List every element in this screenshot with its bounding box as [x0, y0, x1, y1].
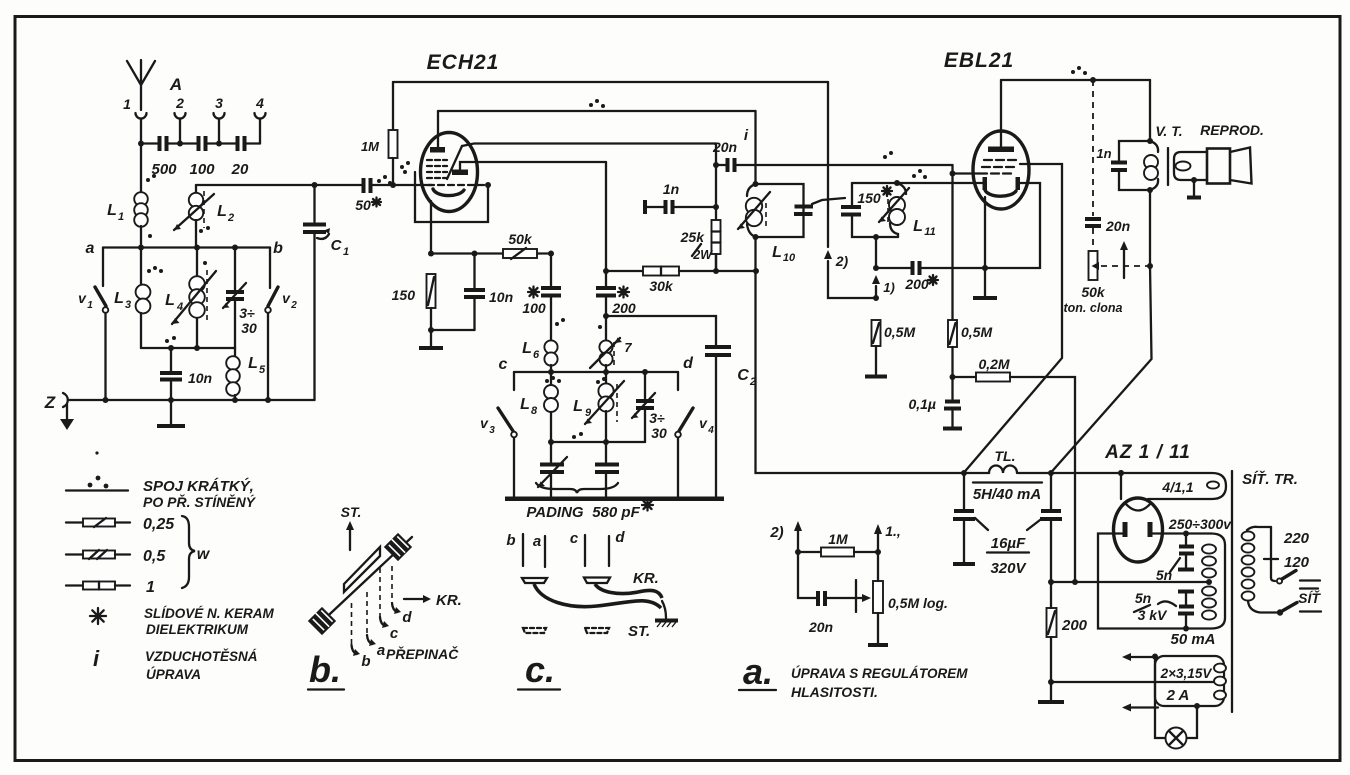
svg-text:3: 3 [215, 95, 223, 111]
svg-text:200: 200 [611, 300, 636, 316]
svg-text:1): 1) [883, 280, 895, 295]
svg-text:a: a [533, 533, 541, 550]
svg-text:20n: 20n [1105, 218, 1130, 234]
capacitor C2 [705, 347, 756, 497]
mains transformer core [1231, 471, 1233, 712]
legend: resistor 1W symbol [66, 579, 155, 596]
tube base box ECH21 [415, 172, 491, 222]
svg-text:5: 5 [259, 364, 266, 376]
svg-text:C: C [331, 237, 343, 254]
switch v2 [265, 248, 297, 401]
anode rail 2 (to L10) [438, 99, 756, 111]
svg-text:50 mA: 50 mA [1170, 631, 1215, 648]
svg-text:2 A: 2 A [1166, 687, 1190, 704]
ground rail (IF unit) [505, 496, 724, 501]
svg-text:ton. clona: ton. clona [1063, 301, 1122, 315]
svg-text:c: c [499, 356, 508, 373]
trimmer 3-30 (IF) [632, 372, 667, 442]
svg-text:3 kV: 3 kV [1138, 607, 1168, 623]
svg-text:5n: 5n [1135, 590, 1151, 606]
svg-text:50k: 50k [508, 231, 533, 247]
svg-text:Z: Z [44, 393, 56, 412]
pilot lamp [1155, 656, 1200, 749]
rotor plate (inset b) [344, 547, 380, 592]
cable to ground (inset c) [534, 584, 661, 608]
triode anode rail (to 200*) [460, 162, 606, 169]
svg-text:5n: 5n [1156, 567, 1172, 583]
B+ rail [756, 271, 1147, 476]
svg-text:150: 150 [857, 190, 881, 206]
resistor 50k [503, 231, 537, 259]
lower junction line [141, 347, 235, 349]
svg-text:L: L [772, 244, 782, 261]
svg-text:250÷300v: 250÷300v [1168, 516, 1232, 532]
tube ECH21 [421, 51, 500, 254]
svg-text:2): 2) [769, 524, 783, 541]
capacitor 16uF (input) [953, 473, 975, 564]
wire d-line to C2 [603, 313, 716, 345]
svg-text:d: d [683, 355, 694, 372]
svg-text:1: 1 [146, 579, 155, 596]
wire grid rail vertical [713, 144, 719, 272]
svg-text:0,5M: 0,5M [961, 324, 992, 340]
svg-text:1M: 1M [361, 139, 380, 154]
heater arrows [1122, 653, 1158, 712]
svg-text:30: 30 [241, 320, 257, 336]
coil L9 [573, 372, 624, 442]
svg-text:L: L [165, 292, 175, 309]
capacitor 10n (cathode) [464, 254, 513, 331]
svg-text:1: 1 [87, 300, 93, 311]
hatched pad lower (inset b) [308, 607, 336, 635]
plug KR left (inset c) [522, 578, 547, 583]
svg-text:TL.: TL. [995, 448, 1016, 464]
padding trimmer capacitor [538, 442, 567, 499]
EBL21 screen return [1020, 183, 1040, 268]
rectifier AZ1/11 [1104, 442, 1191, 562]
wire grid jog into EBL21 [883, 151, 979, 179]
svg-text:c.: c. [525, 649, 555, 690]
svg-text:c: c [570, 530, 579, 547]
wire L10 cap to 150* [812, 198, 845, 204]
svg-text:3: 3 [489, 425, 495, 436]
anode return box AZ1 [1098, 534, 1189, 632]
svg-text:SLÍDOVÉ N. KERAM: SLÍDOVÉ N. KERAM [144, 606, 275, 621]
svg-text:3÷: 3÷ [649, 410, 665, 426]
svg-text:PO PŘ. STÍNĚNÝ: PO PŘ. STÍNĚNÝ [143, 493, 257, 510]
svg-text:10: 10 [783, 252, 796, 264]
top supply rail (ECH21) [393, 81, 828, 83]
svg-text:SÍŤ: SÍŤ [1298, 589, 1321, 606]
svg-text:EBL21: EBL21 [944, 49, 1014, 72]
svg-text:ST.: ST. [341, 504, 362, 520]
switch v1 [78, 248, 108, 401]
svg-text:2: 2 [227, 212, 234, 224]
svg-text:10n: 10n [489, 289, 513, 305]
capacitor 20n (inset a) [818, 591, 825, 606]
svg-text:ÚPRAVA S REGULÁTOREM: ÚPRAVA S REGULÁTOREM [791, 666, 968, 681]
svg-text:A: A [169, 75, 182, 94]
switch shaft (inset b) [316, 537, 412, 627]
capacitor 16uF (output) [1040, 473, 1062, 585]
svg-text:1M: 1M [828, 531, 848, 547]
svg-text:16µF: 16µF [991, 535, 1026, 552]
IF transformer L11 tank [841, 180, 983, 240]
capacitor 10n (osc) [160, 336, 212, 400]
node a / line a-b [86, 240, 284, 257]
svg-text:L: L [107, 202, 117, 219]
svg-text:20: 20 [231, 161, 249, 178]
antenna terminal 3 [214, 95, 225, 144]
svg-text:30: 30 [651, 425, 667, 441]
svg-text:1.,: 1., [885, 523, 901, 539]
break point 1) [872, 237, 895, 298]
coil L4 [165, 248, 216, 352]
svg-text:4/1,1: 4/1,1 [1161, 479, 1193, 495]
capacitor 200* (coupling to EBL21) [876, 261, 1040, 292]
svg-text:11: 11 [924, 226, 935, 238]
svg-text:L: L [217, 203, 227, 220]
svg-text:1: 1 [118, 211, 124, 223]
resistor 25k/2W [680, 220, 721, 271]
svg-text:b: b [361, 653, 370, 670]
mains primary winding [1242, 527, 1277, 613]
label 16uF/320V [975, 518, 1040, 577]
speaker REPROD [1174, 122, 1264, 198]
svg-text:ECH21: ECH21 [427, 51, 500, 74]
svg-text:a: a [86, 240, 95, 257]
svg-text:C: C [737, 367, 749, 384]
svg-text:KR.: KR. [633, 570, 659, 587]
antenna terminal 4 [255, 95, 266, 144]
svg-text:VZDUCHOTĚSNÁ: VZDUCHOTĚSNÁ [145, 649, 258, 664]
svg-text:c: c [390, 625, 399, 642]
svg-text:4: 4 [176, 301, 183, 313]
svg-text:2W: 2W [692, 248, 713, 262]
svg-text:1: 1 [343, 246, 349, 258]
terminal Z [44, 393, 315, 412]
svg-text:0,1µ: 0,1µ [908, 396, 936, 412]
legend: brace w [182, 516, 211, 588]
svg-text:2): 2) [835, 253, 849, 269]
wire padding junction [548, 432, 645, 445]
voltage selector 220/120 [1264, 527, 1320, 584]
svg-text:d: d [615, 529, 625, 546]
svg-text:DIELEKTRIKUM: DIELEKTRIKUM [146, 622, 249, 637]
resistor 1M (inset a) [821, 548, 854, 557]
svg-text:150: 150 [392, 287, 416, 303]
svg-text:w: w [197, 546, 211, 563]
svg-text:v: v [480, 415, 489, 431]
svg-text:50k: 50k [1081, 284, 1106, 300]
coil L6 [522, 318, 565, 372]
svg-text:5H/40 mA: 5H/40 mA [973, 486, 1041, 503]
ground (inset a) [868, 643, 888, 647]
heater tap line [1051, 681, 1155, 683]
svg-text:L: L [248, 355, 258, 372]
EBL21 top rail [1001, 66, 1150, 83]
svg-text:0,25: 0,25 [143, 516, 175, 533]
svg-text:8: 8 [531, 405, 538, 417]
svg-text:2: 2 [175, 95, 184, 111]
legend: i airtight [93, 646, 258, 682]
coil L5 [226, 348, 266, 400]
IF transformer L10 tank [738, 111, 813, 271]
svg-text:KR.: KR. [436, 592, 462, 609]
switch v4 [675, 372, 714, 498]
plug KR right (inset c) [584, 578, 610, 584]
svg-text:d: d [402, 609, 412, 626]
tone control dashed branch [1063, 80, 1153, 315]
capacitor 1n (across primary) [1096, 141, 1150, 190]
svg-text:6: 6 [533, 349, 540, 361]
resistor 0,2M [953, 356, 1079, 585]
svg-text:SÍŤ. TR.: SÍŤ. TR. [1242, 470, 1298, 488]
ground below 10n [157, 400, 185, 426]
antenna A [123, 60, 182, 144]
potentiometer 0,5M log (inset a) [873, 581, 883, 613]
trimmer 3-30 (osc) [223, 248, 257, 349]
svg-text:L: L [573, 398, 583, 415]
switch v3 [480, 372, 517, 498]
svg-text:25k: 25k [680, 229, 706, 245]
coil L8 [520, 372, 561, 442]
ground under 150 [419, 327, 475, 348]
brace and PADING label [526, 483, 653, 521]
svg-text:a.: a. [743, 651, 773, 692]
resistor 200 (bias) [1038, 582, 1088, 702]
svg-text:100: 100 [189, 161, 215, 178]
capacitor *100 [522, 254, 561, 342]
svg-text:ST.: ST. [628, 623, 650, 640]
resistor 0,5M (grid EBL21) [948, 174, 992, 381]
svg-text:L: L [114, 290, 124, 307]
svg-text:a: a [377, 642, 385, 659]
svg-text:b.: b. [309, 649, 341, 690]
capacitor 5n (upper) [1156, 534, 1194, 584]
filament winding 4/1.1 [1118, 470, 1226, 499]
svg-text:SPOJ KRÁTKÝ,: SPOJ KRÁTKÝ, [143, 478, 254, 495]
svg-text:4: 4 [255, 95, 264, 111]
coil L3 [114, 248, 163, 349]
speaker return wire and diagonal [1051, 190, 1152, 473]
svg-text:30k: 30k [649, 278, 674, 294]
resistor 0,5M (diode load) [865, 320, 915, 377]
cathode node line [428, 251, 554, 257]
svg-text:3÷: 3÷ [239, 305, 255, 321]
capacitor 20n coupling [712, 127, 953, 172]
svg-text:v: v [78, 290, 87, 306]
svg-text:HLASITOSTI.: HLASITOSTI. [791, 684, 878, 700]
svg-text:3: 3 [125, 299, 131, 311]
svg-text:PADING: PADING [526, 504, 584, 521]
svg-text:20n: 20n [712, 139, 737, 155]
legend: resistor 0,5W symbol [66, 548, 166, 565]
legend: asterisk mica dielectric [90, 606, 275, 637]
svg-text:320V: 320V [990, 560, 1027, 577]
svg-text:REPROD.: REPROD. [1200, 122, 1264, 138]
svg-text:L: L [520, 396, 530, 413]
svg-text:ÚPRAVA: ÚPRAVA [146, 667, 201, 682]
hatched pad upper (inset b) [384, 533, 412, 561]
svg-text:2: 2 [290, 300, 297, 311]
svg-text:120: 120 [1284, 554, 1310, 571]
tube EBL21 [944, 49, 1029, 209]
svg-text:L: L [913, 218, 923, 235]
svg-text:100: 100 [522, 300, 546, 316]
svg-text:v: v [699, 415, 708, 431]
legend: resistor 0,25W symbol [66, 516, 175, 533]
line c-d [499, 355, 695, 375]
svg-text:AZ 1 / 11: AZ 1 / 11 [1104, 442, 1191, 463]
capacitor *200 [596, 162, 636, 316]
svg-text:220: 220 [1283, 530, 1310, 547]
capacitor 50* [355, 175, 432, 213]
choke TL [964, 448, 1042, 503]
svg-text:0,5M log.: 0,5M log. [888, 595, 948, 611]
triode grid rail (to 20n) [462, 144, 716, 147]
svg-text:0,5: 0,5 [143, 548, 166, 565]
HT winding 250-300V [1152, 516, 1232, 648]
padding fixed capacitor 580pF [595, 442, 619, 499]
svg-text:1: 1 [123, 96, 131, 112]
HT centre-tap line [1051, 581, 1209, 583]
svg-text:i: i [93, 646, 100, 671]
EBL21 grid2 line and diagonal to B+ [964, 164, 1062, 473]
svg-text:b: b [273, 240, 283, 257]
svg-text:20n: 20n [808, 619, 833, 635]
svg-text:2×3,15V: 2×3,15V [1160, 666, 1213, 681]
svg-text:580 pF: 580 pF [592, 504, 640, 521]
resistor 1M [361, 82, 410, 188]
svg-text:1n: 1n [1096, 146, 1111, 161]
svg-text:200: 200 [1061, 617, 1088, 634]
coil L2 [174, 185, 234, 248]
signal wire L2 to grid [196, 184, 362, 186]
svg-text:0,5M: 0,5M [884, 324, 915, 340]
inset c: cable connections [506, 529, 678, 690]
coil L1 [107, 144, 156, 248]
svg-text:200: 200 [904, 276, 929, 292]
ground arrow at Z [60, 404, 74, 430]
svg-text:L: L [522, 340, 532, 357]
chassis ground (inset c) [655, 619, 678, 623]
svg-text:b: b [506, 532, 515, 549]
output transformer V.T. [1144, 80, 1183, 193]
capacitor 1n (AVC) [645, 181, 716, 214]
svg-text:50: 50 [355, 197, 371, 213]
coil L7 [590, 316, 632, 372]
svg-text:9: 9 [585, 407, 592, 419]
switch SIT [1277, 589, 1322, 616]
svg-text:v: v [282, 290, 291, 306]
capacitor 100 [177, 136, 219, 178]
svg-text:PŘEPINAČ: PŘEPINAČ [386, 645, 459, 662]
legend: shielded short connection symbol [66, 451, 257, 510]
svg-text:7: 7 [624, 340, 632, 355]
capacitor 20 [216, 136, 260, 178]
capacitor 5n/3kV (lower) [1134, 590, 1194, 629]
inset a: volume control modification [739, 521, 968, 700]
resistor 150 [392, 274, 436, 330]
heater winding 2x3,15V [1152, 654, 1226, 707]
capacitor 500 [138, 136, 180, 178]
svg-text:0,2M: 0,2M [978, 356, 1009, 372]
svg-text:V. T.: V. T. [1155, 123, 1182, 139]
branch 2) from top rail [824, 82, 879, 301]
capacitor C1 [303, 182, 349, 400]
svg-text:1n: 1n [663, 181, 679, 197]
capacitor 0,1u [908, 377, 962, 429]
inset b: rotary switch PREPINAC [308, 504, 462, 690]
svg-text:4: 4 [707, 425, 714, 436]
EBL21 cathode to ground [973, 197, 997, 298]
svg-text:10n: 10n [188, 370, 212, 386]
antenna terminal 2 [175, 95, 186, 144]
resistor 30k [606, 267, 759, 295]
